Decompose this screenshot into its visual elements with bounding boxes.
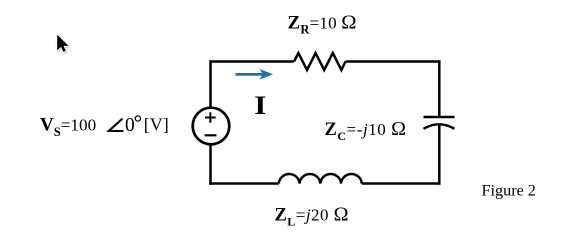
wire bottom-right segment <box>362 182 440 185</box>
voltage source plus sign <box>205 112 216 122</box>
current arrow I <box>236 69 274 80</box>
svg-text:[V]: [V] <box>144 115 169 135</box>
voltage source VS circle <box>193 108 230 145</box>
wire right lower <box>438 126 441 185</box>
capacitor ZC top plate <box>424 116 455 119</box>
wire bottom-left segment <box>209 182 279 185</box>
wire left upper <box>209 60 212 107</box>
svg-text:ZC=-j10 Ω: ZC=-j10 Ω <box>325 118 407 143</box>
wire right upper <box>438 60 441 116</box>
svg-text:Figure 2: Figure 2 <box>482 182 536 200</box>
angle symbol <box>109 119 124 132</box>
label I <box>254 91 266 120</box>
svg-text:ZL=j20 Ω: ZL=j20 Ω <box>275 204 349 229</box>
svg-text:0: 0 <box>125 115 135 136</box>
svg-text:ZR=10 Ω: ZR=10 Ω <box>288 11 357 36</box>
capacitor ZC curved plate <box>424 124 455 129</box>
wire top-right segment <box>346 60 440 63</box>
svg-text:VS=100: VS=100 <box>40 115 96 140</box>
inductor ZL <box>279 174 362 183</box>
voltage source minus sign <box>205 134 217 136</box>
mouse cursor <box>57 35 68 52</box>
wire top-left segment <box>211 60 295 63</box>
wire left lower <box>209 145 212 185</box>
svg-text:I: I <box>254 91 266 120</box>
degree circle <box>135 116 140 121</box>
resistor ZR <box>294 53 346 70</box>
